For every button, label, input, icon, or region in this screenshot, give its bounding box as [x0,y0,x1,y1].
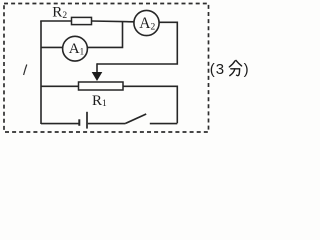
wire from A2 right, down and across to slider arrow [97,22,177,64]
slider arrow of rheostat [92,63,103,81]
wire junction vertical from top wire down to A1 branch [88,21,123,47]
ammeter A2 [134,10,159,35]
label (3 分) [210,60,249,77]
svg-text:3: 3 [216,61,224,78]
resistor R2 [72,17,92,24]
wire from battery to switch [88,123,126,125]
wire left vertical [40,21,42,124]
switch S (open blade) [126,114,147,123]
stray pen mark [24,65,27,76]
wire from switch to bottom right corner [150,123,178,125]
wire bottom left segment to battery [41,123,79,125]
battery [79,112,87,129]
rheostat R1 [79,82,124,90]
svg-text:): ) [244,61,249,78]
svg-text:(: ( [210,61,215,78]
wire from R2 to ammeter A2 [92,20,135,23]
ammeter A1 [63,36,88,61]
wire top from left corner to R2 [40,20,71,22]
wire from left vertical to A1 [41,46,63,48]
wire from R1 right to right vertical down to bottom [123,86,177,123]
wire from left vertical to R1 [41,85,79,87]
